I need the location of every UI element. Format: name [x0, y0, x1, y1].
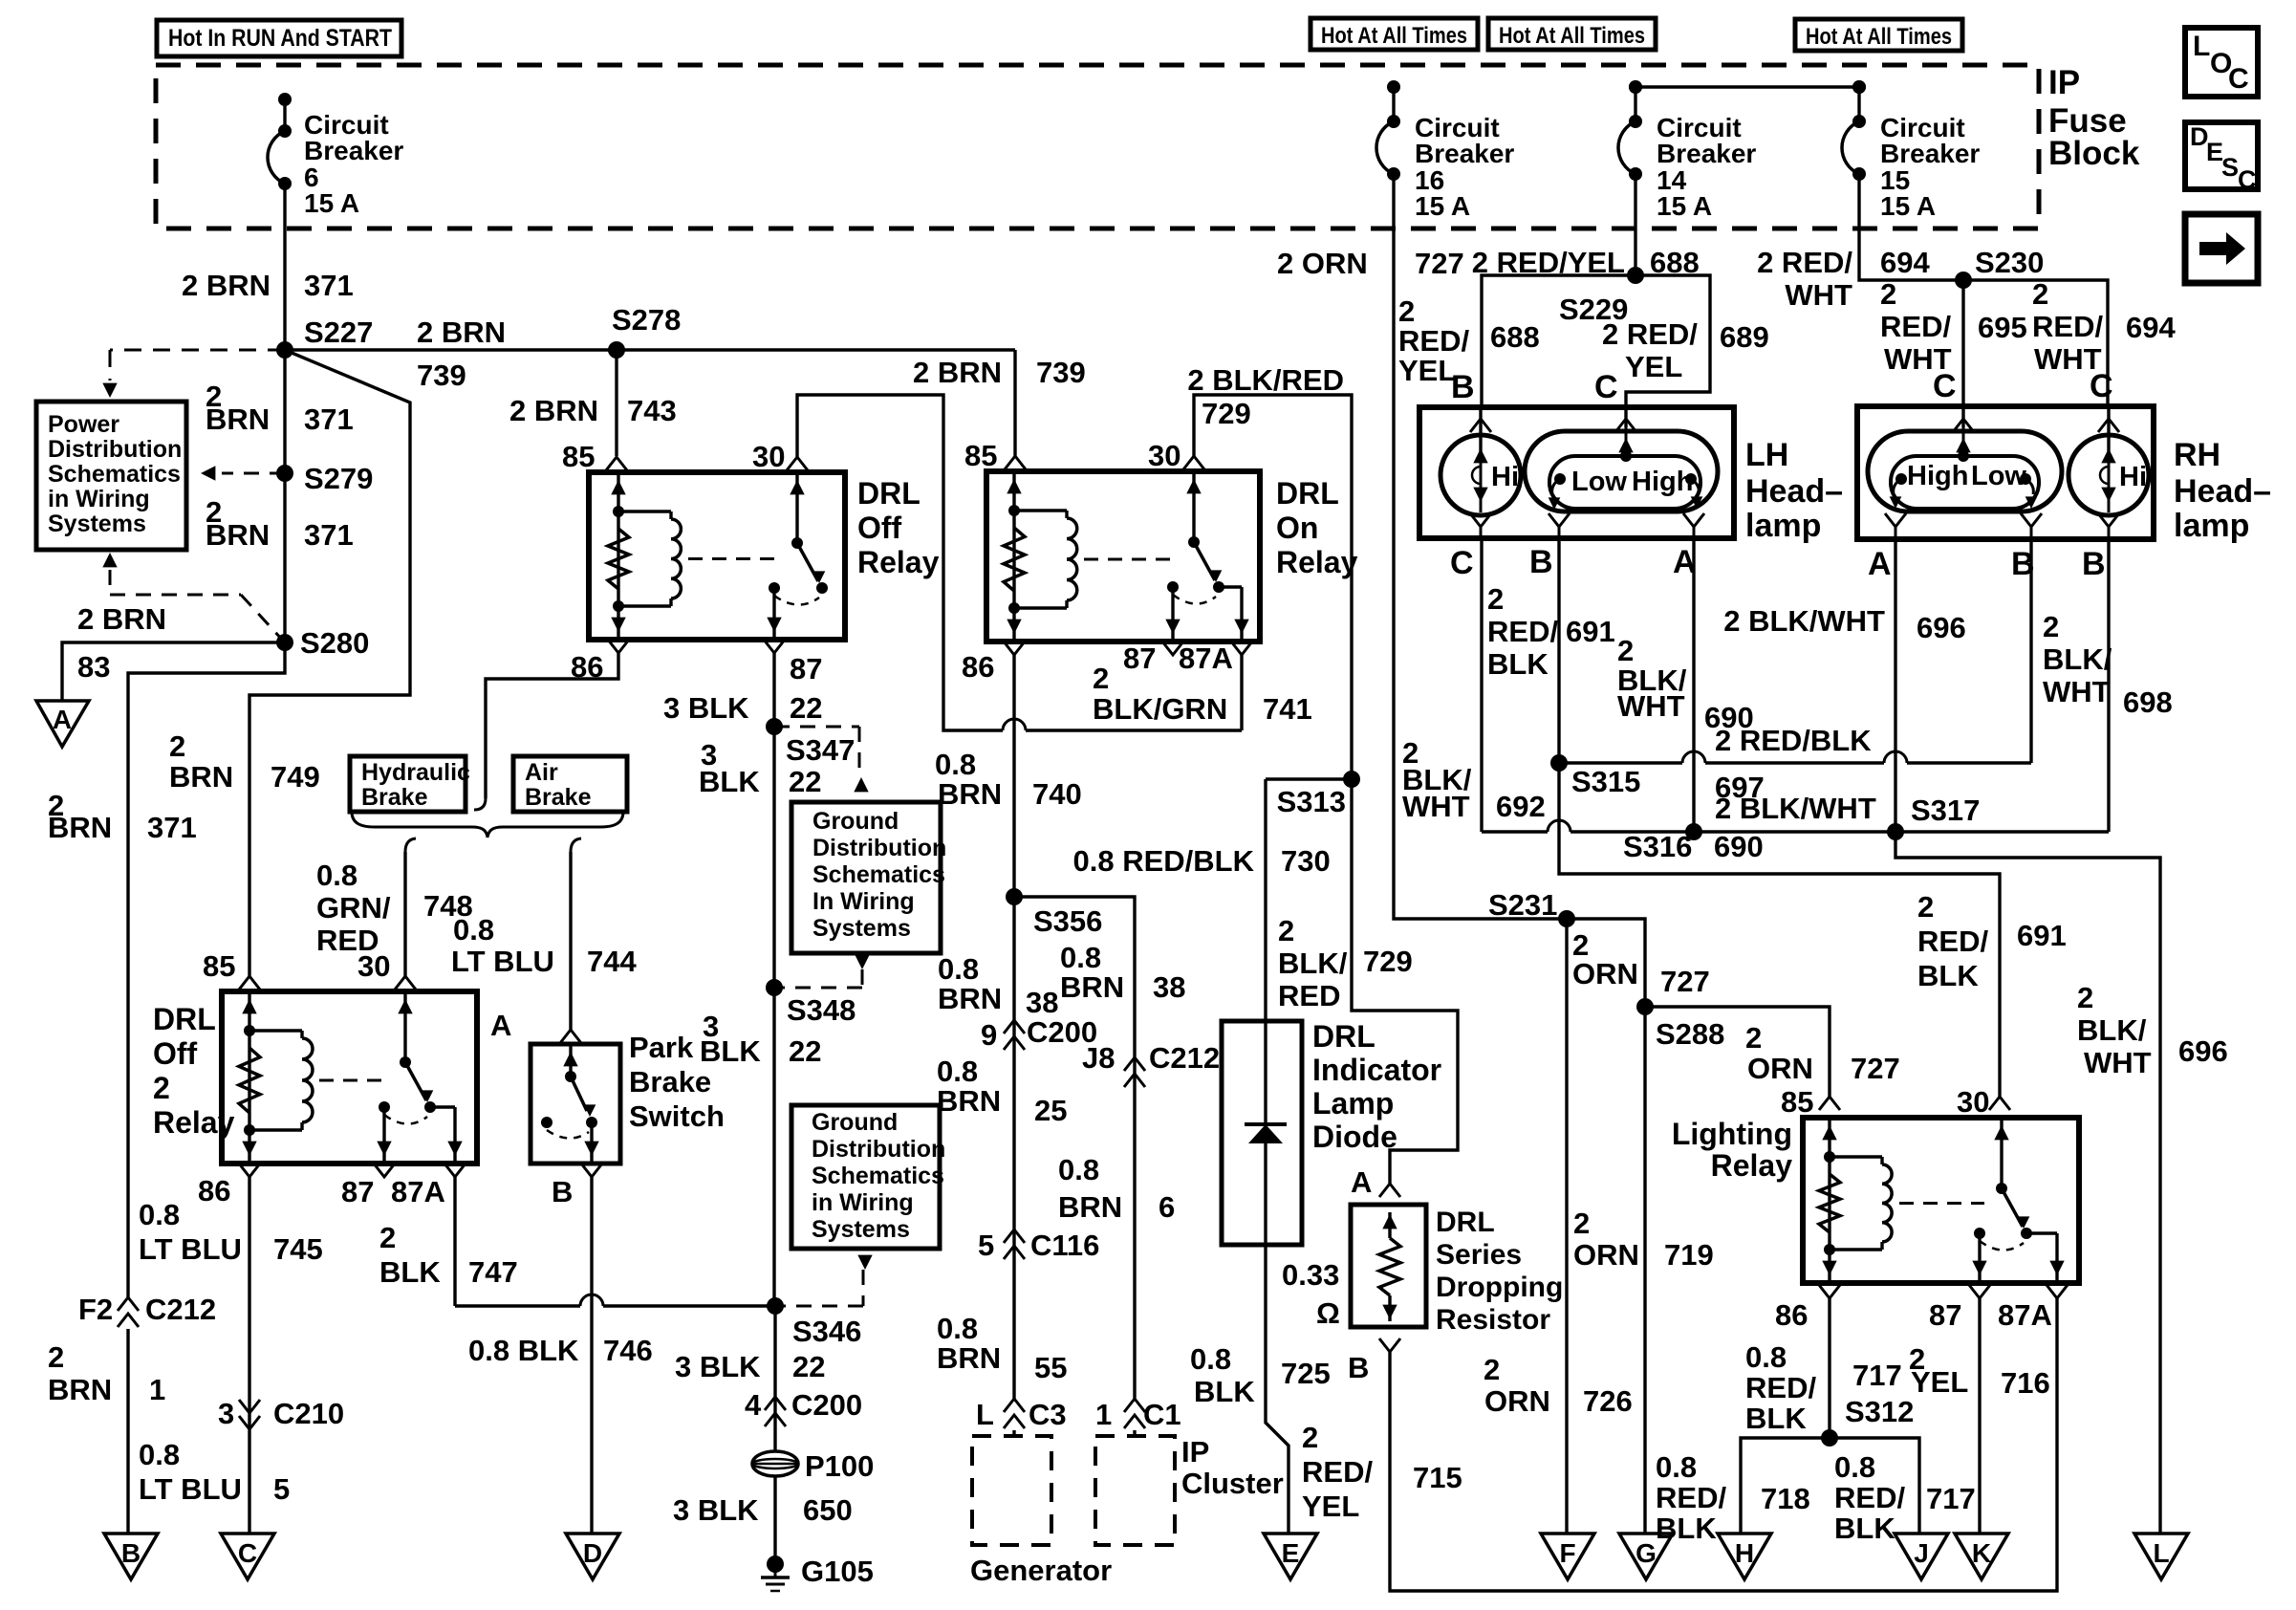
svg-text:RED/: RED/ [1398, 324, 1469, 358]
wire: S227 to S279 to S280 (2 BRN 371) [283, 350, 286, 642]
svg-text:BRN: BRN [1060, 970, 1124, 1004]
RH pin C entry chevron [1961, 406, 1964, 427]
svg-text:Hot At All Times: Hot At All Times [1806, 24, 1952, 50]
svg-text:C: C [238, 1538, 257, 1568]
wire: bus S278 to DRL On relay 85 drop [617, 348, 1015, 351]
node S346 [767, 1297, 784, 1315]
svg-text:2 RED/BLK: 2 RED/BLK [1715, 724, 1872, 757]
svg-text:25: 25 [1034, 1094, 1067, 1127]
wire: DRL Off 87 down to S347 (3 BLK 22) [772, 653, 775, 1306]
svg-text:Park: Park [629, 1031, 694, 1064]
svg-text:J8: J8 [1082, 1041, 1115, 1075]
pin 30 chevron (DRL On) [1183, 456, 1204, 469]
DRL series dropping resistor R1 [1351, 1205, 1426, 1327]
node S288 [1636, 998, 1654, 1015]
wire: DRL Off pin30 to DRL On 87A (2 BRN 739 jumper) [797, 395, 1003, 730]
svg-text:0.8: 0.8 [1190, 1342, 1231, 1376]
svg-text:15 A: 15 A [1657, 191, 1712, 221]
LH stadium outer [1525, 431, 1718, 511]
svg-text:717: 717 [1852, 1359, 1902, 1392]
svg-text:Head–: Head– [1745, 473, 1843, 510]
svg-text:A: A [53, 705, 72, 734]
svg-text:694: 694 [2126, 311, 2176, 344]
wire: lighting 87 to triangle K (2 YEL 716) [1978, 1298, 1981, 1534]
svg-text:BLK: BLK [379, 1255, 441, 1289]
svg-text:RED: RED [1278, 979, 1340, 1012]
LH High filament [1685, 473, 1697, 485]
dashed link S347 to ground box 1 [774, 726, 859, 729]
LH bottom chevron B [1549, 513, 1570, 527]
svg-text:DRL: DRL [153, 1002, 216, 1036]
wire: brace to park brake A (0.8 LT BLU 744) [571, 838, 581, 852]
svg-text:YEL: YEL [1625, 350, 1682, 383]
svg-text:C212: C212 [145, 1293, 216, 1326]
relay U1: DRL Off Relay [589, 472, 845, 640]
pin 30 chevron (lighting) [1989, 1097, 2010, 1110]
dashed wire: S227 to Power Distribution box [110, 349, 285, 352]
svg-text:717: 717 [1926, 1482, 1976, 1515]
svg-text:Ground: Ground [812, 808, 899, 835]
svg-text:LT BLU: LT BLU [139, 1472, 242, 1506]
svg-text:5: 5 [978, 1229, 994, 1262]
wire: RH B to 697 row [2029, 539, 2032, 763]
svg-text:B: B [552, 1175, 573, 1208]
svg-text:Systems: Systems [48, 511, 146, 537]
air brake box [513, 756, 627, 812]
svg-text:Low: Low [1571, 467, 1627, 497]
svg-text:G: G [1635, 1538, 1657, 1568]
svg-text:C: C [2228, 63, 2249, 95]
label box: Hot At All Times (3) [1795, 19, 1962, 51]
pin 85 chevron (DRL Off) [606, 457, 627, 470]
wire: jumper CB14-CB15 tops [1635, 85, 1859, 88]
svg-text:C210: C210 [273, 1397, 344, 1430]
svg-text:Air: Air [525, 759, 558, 786]
wire: CB14 to S229 (2 RED/YEL 688) [1634, 174, 1636, 275]
diode D1 [1264, 1021, 1267, 1245]
svg-text:2 RED/: 2 RED/ [1757, 246, 1852, 279]
svg-text:85: 85 [964, 439, 997, 472]
svg-text:0.8 RED/BLK: 0.8 RED/BLK [1073, 844, 1255, 878]
svg-text:S280: S280 [300, 626, 369, 660]
IP Fuse Block dashed border [156, 65, 2039, 228]
svg-text:ORN: ORN [1484, 1384, 1550, 1418]
svg-text:in Wiring: in Wiring [48, 486, 150, 512]
node S280 [276, 634, 293, 651]
svg-text:D: D [583, 1538, 602, 1568]
wire: S227 diagonal to DRL Off2 relay 85 (2 BRN 749) [249, 350, 410, 976]
svg-text:Lamp: Lamp [1312, 1086, 1394, 1120]
pin 85 chevron (Off2) [239, 976, 260, 990]
off-page triangle G [1619, 1534, 1673, 1579]
svg-text:GRN/: GRN/ [316, 891, 391, 925]
RH stadium inner [1891, 456, 2039, 509]
legend arrow box [2185, 214, 2258, 283]
svg-text:Relay: Relay [1276, 545, 1358, 579]
svg-text:2: 2 [1278, 914, 1294, 947]
svg-text:BLK/: BLK/ [2043, 642, 2112, 676]
RH bottom chevron B [2021, 513, 2042, 527]
LH stadium inner [1549, 456, 1700, 509]
off-page triangle F [1541, 1534, 1594, 1579]
off-page triangle H [1718, 1534, 1771, 1579]
svg-text:Breaker: Breaker [304, 136, 403, 165]
wire: S231 to S288 (2 ORN 727) [1567, 919, 1645, 1007]
wire: S280 down-jog to F2 connector [128, 642, 285, 1297]
svg-text:1: 1 [1095, 1398, 1112, 1431]
svg-text:0.8: 0.8 [1058, 1153, 1099, 1186]
svg-text:BRN: BRN [169, 760, 233, 794]
svg-text:B: B [2082, 546, 2106, 582]
svg-text:ORN: ORN [1747, 1052, 1813, 1085]
circuit breaker 14 [1629, 80, 1642, 94]
off-page triangle C [221, 1534, 274, 1579]
relay U4: Lighting Relay [1803, 1118, 2079, 1283]
pin 87A chevron (Off2) [444, 1164, 466, 1177]
svg-text:RED/: RED/ [1745, 1371, 1816, 1404]
LH C pin arrow [1625, 427, 1628, 456]
svg-text:S227: S227 [304, 315, 373, 349]
wire: CB16 to S231 (2 ORN 727) [1394, 174, 1567, 919]
wire: S288 to triangle G (2 ORN 719) [1643, 1007, 1646, 1534]
svg-text:BLK/: BLK/ [1278, 946, 1348, 980]
pin 86 chevron (DRL Off) [608, 640, 629, 653]
svg-text:RED: RED [316, 924, 379, 957]
node S356 [1006, 888, 1023, 905]
svg-text:S230: S230 [1975, 246, 2044, 279]
wire: S312 to triangle H (0.8 RED/BLK 718) [1741, 1438, 1830, 1534]
wire: S356 to C200 to generator (0.8 BRN) [1012, 897, 1015, 1399]
svg-text:85: 85 [1781, 1085, 1813, 1119]
LOC legend box [2185, 28, 2258, 97]
svg-text:746: 746 [603, 1334, 653, 1367]
wire: diode to triangle E (0.8 BLK 725) [1266, 1245, 1289, 1534]
svg-text:86: 86 [198, 1174, 230, 1207]
svg-text:Series: Series [1436, 1239, 1522, 1271]
svg-text:696: 696 [1917, 611, 1966, 644]
svg-text:86: 86 [1775, 1298, 1808, 1332]
svg-text:WHT: WHT [1785, 278, 1852, 312]
svg-text:RED/: RED/ [1880, 310, 1951, 343]
wire: CB15 to S230 [1859, 174, 1963, 280]
svg-text:BLK: BLK [1487, 647, 1549, 681]
wire: S229 to LH C pin (2 RED/YEL 689) [1626, 275, 1710, 407]
svg-text:2 BRN: 2 BRN [509, 394, 598, 427]
svg-text:2 BRN: 2 BRN [417, 315, 506, 349]
svg-text:C3: C3 [1029, 1398, 1067, 1431]
svg-text:730: 730 [1281, 844, 1331, 878]
svg-text:C212: C212 [1149, 1041, 1220, 1075]
wire: lighting 86 to S312 (0.8 RED/BLK 717) [1828, 1298, 1830, 1438]
svg-text:BLK: BLK [1194, 1375, 1255, 1408]
wire: RH B2 to S317 row (2 BLK/WHT 698) [2107, 539, 2110, 832]
svg-text:Hi: Hi [1491, 462, 1519, 492]
svg-text:5: 5 [273, 1472, 290, 1506]
svg-text:WHT: WHT [1617, 689, 1685, 723]
svg-text:30: 30 [1957, 1085, 1989, 1119]
pin 87 chevron (Off2) [374, 1164, 395, 1177]
dashed link ground box 2 to S346 [857, 1255, 872, 1270]
svg-text:BRN: BRN [938, 777, 1002, 811]
svg-text:H: H [1735, 1538, 1754, 1568]
svg-text:38: 38 [1153, 970, 1185, 1004]
park brake switch box [531, 1044, 620, 1164]
svg-text:Ω: Ω [1316, 1296, 1340, 1330]
svg-text:691: 691 [1566, 615, 1615, 648]
svg-text:2: 2 [2043, 610, 2059, 643]
wire: S312 to triangle J (0.8 RED/BLK 717) [1830, 1438, 1919, 1534]
svg-text:Relay: Relay [857, 545, 940, 579]
svg-text:Breaker: Breaker [1880, 139, 1980, 168]
svg-text:Schematics: Schematics [812, 1163, 944, 1189]
relay U2: DRL On Relay [986, 471, 1260, 642]
svg-text:696: 696 [2178, 1034, 2228, 1068]
svg-text:BLK/GRN: BLK/GRN [1093, 692, 1227, 726]
node S316 [1685, 823, 1702, 840]
wire: 697 row S315 to RH B [1559, 761, 1682, 764]
svg-text:Diode: Diode [1312, 1120, 1397, 1154]
svg-text:lamp: lamp [2174, 508, 2249, 544]
svg-text:87A: 87A [1998, 1298, 2052, 1332]
wire: RH A to S317 (2 BLK/WHT 696) [1894, 539, 1896, 832]
svg-text:BRN: BRN [206, 518, 270, 552]
svg-text:2 BRN: 2 BRN [182, 269, 271, 302]
svg-text:Indicator: Indicator [1312, 1053, 1441, 1087]
pin 30 chevron (DRL Off) [787, 457, 808, 470]
svg-text:BLK: BLK [1834, 1512, 1895, 1545]
label box: Hot In RUN And START [157, 20, 401, 56]
svg-text:2: 2 [1917, 890, 1934, 924]
svg-text:22: 22 [790, 691, 822, 725]
brace under brake boxes [352, 812, 623, 838]
svg-text:692: 692 [1496, 790, 1546, 823]
svg-text:WHT: WHT [2043, 675, 2111, 708]
svg-text:BRN: BRN [1058, 1190, 1122, 1224]
svg-text:2: 2 [1484, 1353, 1500, 1386]
svg-text:2: 2 [1398, 294, 1415, 328]
wire: LH B to S315 (2 RED/BLK 691) [1557, 538, 1560, 763]
svg-text:371: 371 [304, 402, 354, 436]
svg-text:86: 86 [962, 650, 994, 684]
svg-text:LT BLU: LT BLU [139, 1232, 242, 1266]
svg-text:P100: P100 [805, 1449, 874, 1483]
svg-text:S312: S312 [1845, 1395, 1914, 1428]
svg-text:3: 3 [218, 1397, 234, 1430]
label box: Hot At All Times (1) [1310, 18, 1478, 50]
svg-text:3 BLK: 3 BLK [663, 691, 749, 725]
svg-text:Breaker: Breaker [1415, 139, 1514, 168]
svg-text:87: 87 [341, 1175, 374, 1208]
svg-text:0.8: 0.8 [935, 748, 976, 781]
pin 87A chevron (lighting) [2047, 1285, 2068, 1298]
svg-text:Cluster: Cluster [1181, 1467, 1284, 1500]
off-page triangle D [566, 1534, 619, 1579]
svg-text:Hot At All Times: Hot At All Times [1321, 23, 1467, 49]
svg-text:A: A [490, 1009, 511, 1042]
DRL indicator lamp diode box [1222, 1021, 1302, 1245]
DESC legend box [2185, 122, 2258, 189]
svg-text:2 BLK/WHT: 2 BLK/WHT [1723, 604, 1885, 638]
wire: DRL Off 86 to brake select curl [486, 653, 618, 798]
svg-text:0.8: 0.8 [316, 859, 357, 892]
svg-text:0.8: 0.8 [938, 952, 979, 986]
off-page triangle B [104, 1534, 158, 1579]
wire: S288 to lighting relay 85 (2 ORN 727) [1645, 1007, 1830, 1097]
pin 85 chevron (lighting) [1819, 1097, 1840, 1110]
svg-text:371: 371 [304, 518, 354, 552]
svg-text:Distribution: Distribution [48, 436, 182, 463]
RH bottom chevron B2 [2098, 513, 2119, 527]
wire: Off2 87A to S346 row (2 BLK 747) [453, 1177, 456, 1306]
node S278 [608, 341, 625, 359]
svg-text:C116: C116 [1030, 1229, 1099, 1262]
svg-text:1: 1 [149, 1373, 165, 1406]
svg-text:716: 716 [2001, 1366, 2050, 1400]
svg-text:2: 2 [1093, 662, 1109, 695]
svg-text:83: 83 [77, 650, 110, 684]
svg-text:715: 715 [1413, 1461, 1462, 1494]
svg-text:2 BRN: 2 BRN [77, 602, 166, 636]
svg-text:lamp: lamp [1745, 508, 1821, 544]
svg-text:High: High [1632, 467, 1693, 497]
svg-text:LT BLU: LT BLU [451, 945, 554, 978]
ground G105 [767, 1556, 784, 1573]
svg-text:IP: IP [2048, 64, 2080, 101]
svg-text:Hydraulic: Hydraulic [361, 759, 470, 786]
generator dashed box [972, 1436, 1051, 1545]
pin 87 chevron (DRL Off) [764, 640, 785, 653]
svg-text:694: 694 [1880, 246, 1930, 279]
node S229 [1627, 267, 1644, 284]
svg-text:Hi: Hi [2119, 462, 2147, 492]
node S347 [766, 718, 783, 735]
svg-text:2: 2 [169, 729, 185, 763]
node S348 [766, 979, 783, 996]
svg-text:Power: Power [48, 411, 119, 438]
wire: LH C to S316 row (2 BLK/WHT 692) [1480, 538, 1483, 832]
dashed wire: box to S280 [102, 553, 117, 567]
node S312 [1821, 1429, 1838, 1447]
node S279 [276, 465, 293, 482]
wire: S317 down to triangle L (2 BLK/WHT 696) [1895, 832, 2160, 1534]
svg-text:in Wiring: in Wiring [812, 1189, 914, 1216]
connector 4 C200 [765, 1397, 786, 1410]
svg-text:739: 739 [417, 359, 466, 392]
svg-text:On: On [1276, 511, 1318, 545]
LH bottom chevron A [1683, 513, 1704, 527]
ground distribution box 1 [791, 802, 941, 953]
svg-text:Relay: Relay [153, 1105, 235, 1140]
svg-text:LH: LH [1745, 437, 1788, 473]
svg-text:2: 2 [1302, 1421, 1318, 1454]
svg-text:2: 2 [1487, 582, 1504, 616]
svg-text:22: 22 [792, 1350, 825, 1383]
wire: S278 down to DRL Off 85 (2 BRN 743) [615, 350, 617, 456]
svg-text:371: 371 [147, 811, 197, 844]
wire: S313 path to dropping resistor A [1352, 779, 1458, 1184]
relay U3: DRL Off Relay 2 [222, 991, 477, 1164]
svg-text:2: 2 [1745, 1021, 1762, 1055]
svg-text:Distribution: Distribution [812, 835, 946, 861]
svg-text:719: 719 [1664, 1238, 1714, 1272]
svg-text:F2: F2 [78, 1293, 113, 1326]
RH bottom chevron A [1885, 513, 1906, 527]
wire: LH A to S316 (2 BLK/WHT 690) [1692, 538, 1695, 832]
svg-text:High: High [1907, 461, 1968, 491]
circuit breaker 15 [1852, 80, 1866, 94]
wire: resistor B to lighting relay 87A (715) [1390, 1298, 2057, 1591]
off-page triangle K [1955, 1534, 2008, 1579]
svg-text:BRN: BRN [48, 1373, 112, 1406]
svg-text:Hot At All Times: Hot At All Times [1499, 23, 1645, 49]
svg-text:S278: S278 [612, 303, 681, 337]
svg-text:Schematics: Schematics [812, 861, 945, 888]
svg-text:B: B [1348, 1351, 1369, 1384]
svg-text:ORN: ORN [1573, 1238, 1639, 1272]
node S227 [276, 341, 293, 359]
svg-text:L: L [2153, 1538, 2169, 1568]
svg-text:726: 726 [1583, 1384, 1633, 1418]
LH Low filament [1554, 473, 1566, 485]
svg-text:0.8: 0.8 [1834, 1450, 1875, 1484]
svg-text:S316: S316 [1623, 830, 1692, 863]
wire: S231 to triangle F (2 ORN 726) [1565, 919, 1568, 1534]
svg-text:E: E [1282, 1538, 1300, 1568]
svg-text:2 BRN: 2 BRN [913, 356, 1002, 389]
connector 3 C210 [239, 1400, 260, 1413]
svg-text:K: K [1972, 1538, 1991, 1568]
svg-text:A: A [1868, 546, 1892, 582]
pin 87 chevron (DRL On) [1162, 642, 1183, 655]
svg-text:2: 2 [1880, 277, 1896, 311]
svg-text:689: 689 [1720, 320, 1769, 354]
svg-text:2: 2 [2032, 277, 2048, 311]
svg-text:C: C [1933, 368, 1957, 404]
svg-text:Generator: Generator [970, 1554, 1112, 1587]
connector 1 C1 [1124, 1399, 1145, 1412]
svg-text:F: F [1559, 1538, 1575, 1568]
svg-text:0.8: 0.8 [1745, 1340, 1787, 1374]
svg-text:0.8: 0.8 [937, 1312, 978, 1345]
wire: S346 down to G105 (3 BLK) [773, 1306, 776, 1451]
svg-text:0.8: 0.8 [937, 1055, 978, 1088]
svg-text:87A: 87A [1179, 642, 1233, 675]
svg-text:38: 38 [1026, 986, 1058, 1019]
wire: DRL On pin30 jumper to S313 drop (2 BLK/RED 729) [1194, 395, 1352, 779]
svg-text:C1: C1 [1143, 1398, 1181, 1431]
LH hi bulb [1440, 435, 1521, 515]
svg-text:RH: RH [2174, 437, 2220, 473]
svg-text:744: 744 [587, 945, 637, 978]
wire: S229 to LH B pin (2 RED/YEL 688) [1482, 275, 1635, 407]
wire: S230 to RH C stadium pin (695) [1961, 280, 1964, 406]
svg-text:S347: S347 [786, 733, 855, 767]
svg-text:DRL: DRL [1436, 1207, 1495, 1238]
svg-text:Schematics: Schematics [48, 461, 181, 488]
svg-text:0.8: 0.8 [139, 1438, 180, 1471]
svg-text:2 ORN: 2 ORN [1277, 247, 1368, 280]
pin 86 chevron (DRL On) [1004, 642, 1025, 655]
svg-text:741: 741 [1263, 692, 1312, 726]
svg-text:S288: S288 [1656, 1017, 1724, 1051]
svg-text:WHT: WHT [2084, 1046, 2152, 1079]
svg-text:0.8 BLK: 0.8 BLK [468, 1334, 579, 1367]
svg-text:85: 85 [562, 440, 595, 473]
svg-text:BRN: BRN [48, 811, 112, 844]
svg-text:691: 691 [2017, 919, 2067, 952]
circuit breaker 6 [278, 93, 292, 106]
wire: F2 to triangle B (2 BRN 1) [126, 1329, 129, 1534]
